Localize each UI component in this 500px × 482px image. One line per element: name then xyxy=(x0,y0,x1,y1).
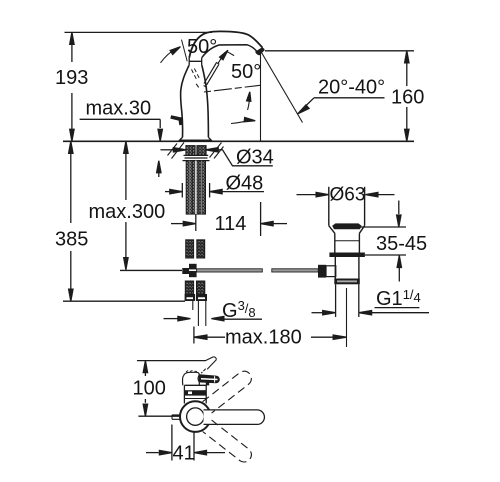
svg-text:Ø34: Ø34 xyxy=(236,147,274,169)
svg-text:max.300: max.300 xyxy=(89,201,166,223)
svg-text:160: 160 xyxy=(391,87,424,109)
svg-text:G3/8: G3/8 xyxy=(222,298,256,322)
svg-text:20°-40°: 20°-40° xyxy=(318,77,385,99)
svg-text:50°: 50° xyxy=(187,36,217,58)
svg-text:193: 193 xyxy=(55,67,88,89)
svg-text:100: 100 xyxy=(133,378,166,400)
svg-text:50°: 50° xyxy=(231,61,261,83)
svg-text:max.180: max.180 xyxy=(225,327,302,349)
svg-text:Ø48: Ø48 xyxy=(226,173,264,195)
svg-text:385: 385 xyxy=(55,229,88,251)
svg-text:max.30: max.30 xyxy=(86,98,152,120)
svg-text:G11/4: G11/4 xyxy=(376,287,421,310)
svg-text:35-45: 35-45 xyxy=(376,233,427,255)
svg-text:41: 41 xyxy=(173,443,195,465)
svg-text:Ø63: Ø63 xyxy=(330,185,366,206)
svg-text:114: 114 xyxy=(215,213,247,235)
